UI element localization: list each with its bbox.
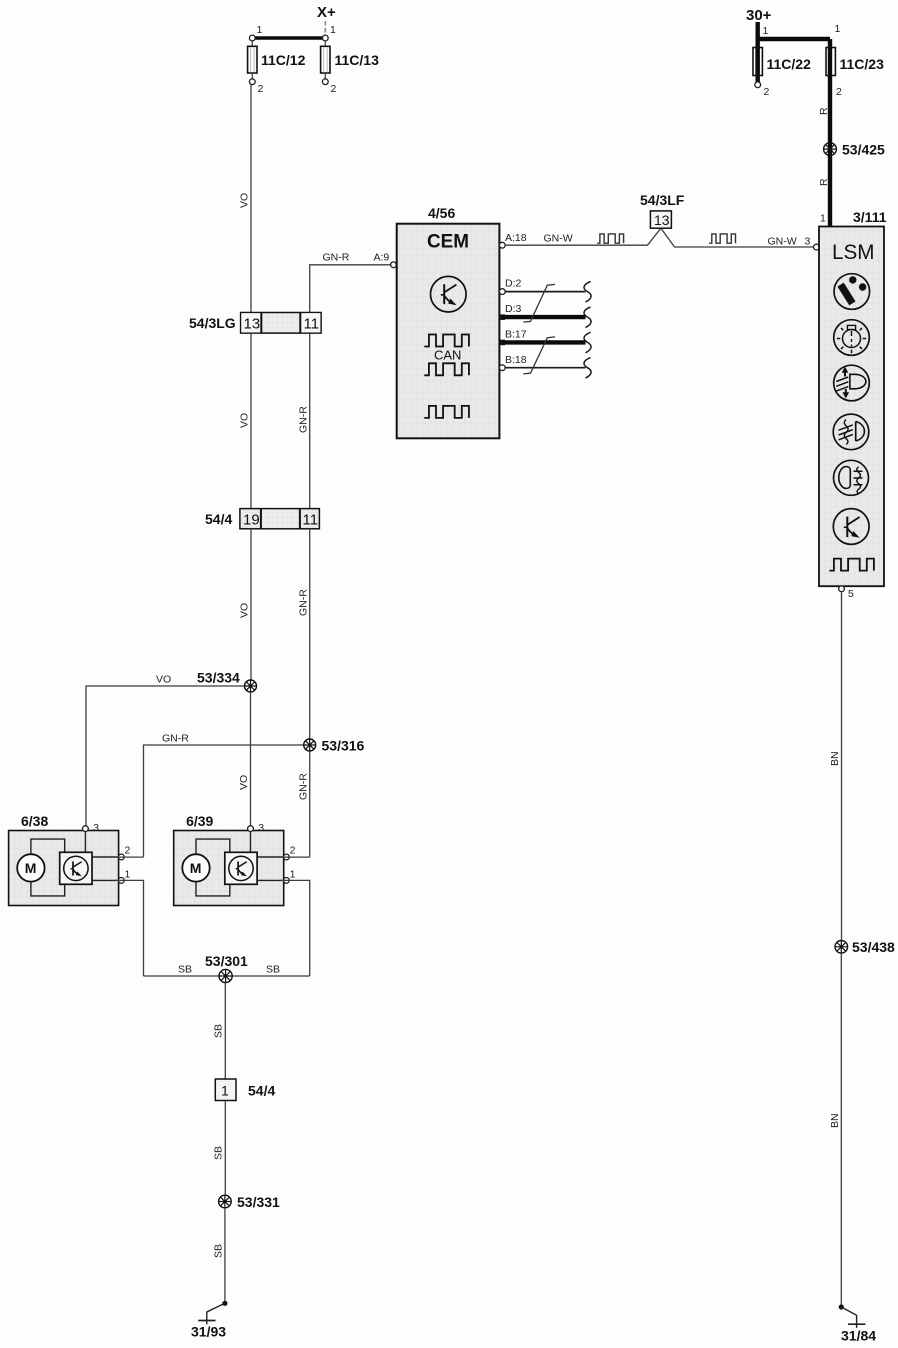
wire BN from LSM pin 5 down to splice 53/438 [841, 592, 843, 941]
pin D:2 of CEM [499, 278, 521, 295]
power node X+ [317, 4, 336, 21]
wire from B:17 (thick) [503, 340, 586, 344]
CEM square wave bottom [424, 406, 469, 418]
pin 2 of fuse 11C/13 [322, 79, 336, 95]
pin A:18 of CEM [499, 232, 526, 248]
twisted pair slash D:2/D:3 [523, 284, 555, 322]
svg-text:1: 1 [290, 869, 296, 881]
wire label BN (lower) [829, 1113, 841, 1128]
splice 53/301 [205, 953, 248, 983]
motor M symbol of 6/38 [17, 854, 44, 881]
svg-text:X+: X+ [317, 4, 336, 21]
transistor K block of 6/38 [60, 852, 92, 884]
wire GN-R from 54/4 down to splice 53/316 [309, 529, 311, 745]
LSM icon: front fog lamp [833, 414, 869, 450]
svg-text:B:18: B:18 [505, 354, 527, 366]
svg-text:54/3LG: 54/3LG [189, 315, 236, 331]
wire GN-R from CEM A:9 left then down to 54/3LG [310, 265, 393, 313]
ground 31/84 [839, 1304, 877, 1343]
wire GN-W from CEM A:18 to 54/3LF [505, 228, 816, 247]
svg-text:1: 1 [257, 24, 263, 36]
wire 6/38 pin 2 to GN-R branch [116, 856, 144, 858]
wire label SB (lower vertical) [213, 1244, 225, 1258]
pin 2 of 6/38 [118, 845, 130, 860]
svg-text:B:17: B:17 [505, 329, 527, 341]
pin 2 label fuse 11C/23 [836, 86, 842, 98]
fuse 11C/12 [248, 41, 306, 79]
svg-text:1: 1 [221, 1083, 229, 1099]
svg-text:SB: SB [213, 1244, 225, 1258]
svg-text:2: 2 [836, 86, 842, 98]
square wave symbol on GN-W wire (right) [709, 234, 735, 243]
LSM icon: transistor K [833, 509, 869, 545]
svg-text:1: 1 [835, 23, 841, 35]
svg-text:11C/23: 11C/23 [840, 56, 885, 72]
svg-text:SB: SB [213, 1024, 225, 1038]
pin 3 of 6/38 [83, 822, 100, 834]
svg-text:BN: BN [829, 751, 841, 766]
svg-text:11: 11 [303, 512, 319, 529]
wire GN-R branch from splice 53/316 left and down to 6/38 pin 2 [144, 745, 310, 857]
pin 1 of 6/39 [284, 869, 296, 884]
svg-text:3/111: 3/111 [853, 209, 887, 225]
svg-text:2: 2 [290, 845, 296, 857]
svg-text:2: 2 [258, 83, 264, 95]
svg-text:13: 13 [654, 212, 670, 228]
svg-text:19: 19 [243, 512, 260, 529]
svg-text:VO: VO [239, 413, 251, 428]
svg-text:GN-R: GN-R [162, 733, 189, 745]
svg-text:M: M [190, 860, 202, 876]
internal wires K to pins 2 and 1 of 6/38 [92, 857, 119, 880]
fuse 11C/22 [753, 48, 811, 76]
pin B:18 of CEM [499, 354, 526, 371]
break squiggle D:3 [584, 307, 591, 328]
svg-text:SB: SB [213, 1146, 225, 1160]
svg-text:53/438: 53/438 [852, 939, 895, 955]
motor unit 6/38 box [9, 813, 119, 906]
svg-text:6/38: 6/38 [21, 813, 48, 829]
wire label VO (branch to 6/38) [156, 674, 171, 686]
wire label GN-R (branch to 6/38) [162, 733, 189, 745]
ground 31/93 [191, 1301, 227, 1340]
splice 53/438 [835, 939, 895, 955]
pin 1 of fuse 11C/12 [249, 24, 262, 41]
svg-text:2: 2 [331, 83, 337, 95]
pin 3 label of LSM [805, 236, 811, 248]
twisted pair slash B:17/B:18 [523, 337, 555, 374]
wire 6/39 pin 2 to GN-R line [281, 856, 310, 858]
connector 54/4 (in-line) [205, 509, 319, 529]
pin 1 label LSM [820, 213, 826, 225]
svg-text:GN-R: GN-R [298, 773, 310, 800]
wire from D:3 (thick) [503, 315, 586, 319]
wire SB from 53/331 to ground 31/93 [224, 1208, 226, 1303]
svg-text:2: 2 [764, 86, 770, 98]
splice 53/425 [824, 142, 885, 158]
wire thick link fuse 11C/12 pin1 to 11C/13 pin1 [252, 36, 325, 39]
LSM square wave symbol [829, 559, 873, 571]
wire label GN-W (left) [544, 233, 573, 245]
svg-text:53/301: 53/301 [205, 953, 248, 969]
splice 53/316 [304, 738, 365, 754]
svg-text:A:9: A:9 [374, 252, 390, 264]
pin 2 of fuse 11C/22 [755, 82, 770, 98]
svg-text:11: 11 [304, 316, 320, 333]
square wave symbol on GN-W wire (left) [597, 234, 623, 243]
svg-text:CEM: CEM [427, 232, 469, 253]
wire BN from 53/438 down to ground 31/84 [840, 953, 842, 1307]
svg-text:11C/12: 11C/12 [261, 52, 306, 68]
svg-text:2: 2 [125, 845, 131, 857]
power node 30+ [746, 7, 772, 24]
wire SB bus horizontal [144, 975, 310, 977]
svg-text:R: R [818, 178, 830, 186]
svg-text:13: 13 [244, 316, 261, 333]
internal wire pin3 to K of 6/39 [250, 831, 252, 853]
svg-text:3: 3 [93, 822, 99, 834]
light switch module LSM 3/111 box [819, 209, 887, 586]
pin 1 of 6/38 [118, 869, 130, 884]
svg-text:SB: SB [266, 964, 280, 976]
wire label GN-W (right) [768, 236, 797, 248]
wire label GN-R (horizontal by A:9) [323, 252, 350, 264]
connector 54/3LF pin 13 [640, 192, 685, 228]
pin 1 of fuse 11C/13 [322, 24, 336, 41]
svg-text:31/84: 31/84 [841, 1328, 876, 1344]
wire label R upper [818, 107, 830, 115]
LSM icon: headlamp levelling [834, 365, 870, 401]
svg-text:VO: VO [238, 775, 250, 790]
svg-text:4/56: 4/56 [428, 205, 455, 221]
wire GN-R from 53/316 down to 6/39 pin 2 [309, 751, 311, 857]
svg-text:GN-R: GN-R [298, 589, 310, 616]
wire VO between 54/3LG and 54/4 [250, 333, 252, 509]
CEM CAN square wave upper [424, 335, 469, 347]
internal wire pin3 to K of 6/38 [84, 831, 86, 853]
svg-text:54/4: 54/4 [205, 511, 232, 527]
wire label SB (upper vertical) [213, 1024, 225, 1038]
wire VO from 11C/12 pin 2 down to connector 54/3LG [250, 85, 252, 313]
splice 53/331 [219, 1194, 280, 1210]
svg-text:A:18: A:18 [505, 232, 527, 244]
break squiggle B:18 [584, 358, 591, 379]
wire label VO (to 6/39) [238, 775, 250, 790]
svg-text:3: 3 [805, 236, 811, 248]
fuse 11C/23 [826, 48, 884, 76]
pin A:9 circle of CEM [391, 262, 397, 268]
svg-text:31/93: 31/93 [191, 1324, 226, 1340]
svg-text:GN-R: GN-R [323, 252, 350, 264]
pin A:9 label of CEM [374, 252, 390, 264]
svg-text:5: 5 [848, 588, 854, 600]
wire label VO (lower segment) [239, 603, 251, 618]
pin 1 label fuse 11C/23 [835, 23, 841, 35]
connector 54/3LG [189, 313, 321, 334]
svg-text:CAN: CAN [434, 348, 461, 363]
connector 54/4 pin 1 [215, 1079, 275, 1101]
svg-text:D:3: D:3 [505, 303, 522, 315]
wire 6/38 pin 1 right then down to SB bus [116, 880, 144, 976]
svg-text:30+: 30+ [746, 7, 772, 24]
svg-text:6/39: 6/39 [186, 813, 213, 829]
internal wire loop M to K of 6/39 [196, 839, 230, 896]
svg-text:R: R [818, 107, 830, 115]
wire label VO (middle segment) [239, 413, 251, 428]
wire thick 30+ feed down through fuse 11C/22 [756, 22, 760, 82]
wire VO from 53/334 down to 6/39 pin 3 [250, 692, 252, 828]
LSM icon: rear fog lamp [834, 460, 869, 495]
svg-text:53/331: 53/331 [237, 1194, 280, 1210]
svg-text:GN-W: GN-W [544, 233, 573, 245]
wire label R lower [818, 178, 830, 186]
pin 3 circle of LSM [814, 244, 820, 250]
svg-text:11C/13: 11C/13 [335, 52, 380, 68]
splice 53/334 [197, 670, 257, 693]
pin 2 of fuse 11C/12 [249, 79, 263, 95]
svg-text:1: 1 [820, 213, 826, 225]
pin 3 of 6/39 [248, 822, 265, 834]
svg-text:VO: VO [156, 674, 171, 686]
wire thick R from 11C/23 down to LSM pin 1 [828, 39, 832, 227]
wire SB from connector to splice 53/331 [224, 1101, 226, 1196]
svg-text:VO: VO [239, 193, 251, 208]
wire VO from 54/4 down to splice 53/334 [250, 529, 252, 686]
break squiggle D:2 [584, 282, 591, 303]
svg-text:54/4: 54/4 [248, 1083, 275, 1099]
pin 2 of 6/39 [284, 845, 296, 860]
svg-text:53/425: 53/425 [842, 142, 885, 158]
wire label GN-R (to 6/39) [298, 773, 310, 800]
wire label GN-R (lower segment) [298, 589, 310, 616]
svg-text:M: M [25, 860, 37, 876]
wire SB from 53/301 down to connector 54/4 [224, 983, 226, 1079]
wire label VO (upper segment) [239, 193, 251, 208]
motor unit 6/39 box [174, 813, 284, 906]
LSM icon: light switch knob [834, 274, 870, 310]
svg-text:GN-R: GN-R [298, 406, 310, 433]
CEM CAN label [434, 348, 461, 363]
internal wire loop M to K of 6/38 [31, 839, 65, 896]
CEM CAN square wave lower [424, 363, 469, 375]
wire label BN (upper) [829, 751, 841, 766]
pin D:3 of CEM [500, 303, 522, 320]
wire label SB (right of 53/301) [266, 964, 280, 976]
pin 1 label fuse 11C/22 [763, 25, 769, 37]
svg-text:1: 1 [125, 869, 131, 881]
svg-text:1: 1 [330, 24, 336, 36]
wire thick link 11C/22 pin1 to 11C/23 pin1 [758, 37, 830, 41]
pin B:17 of CEM [500, 329, 527, 346]
transistor K block of 6/39 [225, 852, 257, 884]
svg-text:53/334: 53/334 [197, 670, 240, 686]
wire label SB (middle vertical) [213, 1146, 225, 1160]
wire 6/39 pin 1 right then down to SB bus [281, 880, 310, 976]
wire GN-R between 54/3LG and 54/4 [309, 333, 311, 509]
pin 5 of LSM [839, 586, 854, 600]
wire from D:2 (thin) [505, 291, 585, 293]
svg-text:LSM: LSM [832, 241, 875, 264]
svg-text:53/316: 53/316 [322, 738, 365, 754]
svg-text:1: 1 [763, 25, 769, 37]
internal wires K to pins 2 and 1 of 6/39 [257, 857, 284, 880]
svg-text:3: 3 [258, 822, 264, 834]
svg-text:D:2: D:2 [505, 278, 522, 290]
fuse 11C/13 [321, 41, 379, 79]
CEM transistor K icon [431, 276, 467, 312]
wire from B:18 (thin) [505, 367, 585, 369]
svg-text:SB: SB [178, 964, 192, 976]
wire X+ stub [324, 21, 326, 35]
control module CEM 4/56 box [397, 205, 500, 438]
motor M symbol of 6/39 [182, 854, 209, 881]
svg-text:54/3LF: 54/3LF [640, 192, 685, 208]
svg-text:11C/22: 11C/22 [767, 56, 812, 72]
break squiggle B:17 [584, 332, 591, 353]
LSM icon: instrument illumination bulb [834, 320, 870, 356]
svg-text:VO: VO [239, 603, 251, 618]
wire VO branch from splice 53/334 left and down to 6/38 pin 3 [86, 686, 251, 828]
wire label GN-R (middle segment) [298, 406, 310, 433]
svg-text:BN: BN [829, 1113, 841, 1128]
wire label SB (left of 53/301) [178, 964, 192, 976]
svg-text:GN-W: GN-W [768, 236, 797, 248]
